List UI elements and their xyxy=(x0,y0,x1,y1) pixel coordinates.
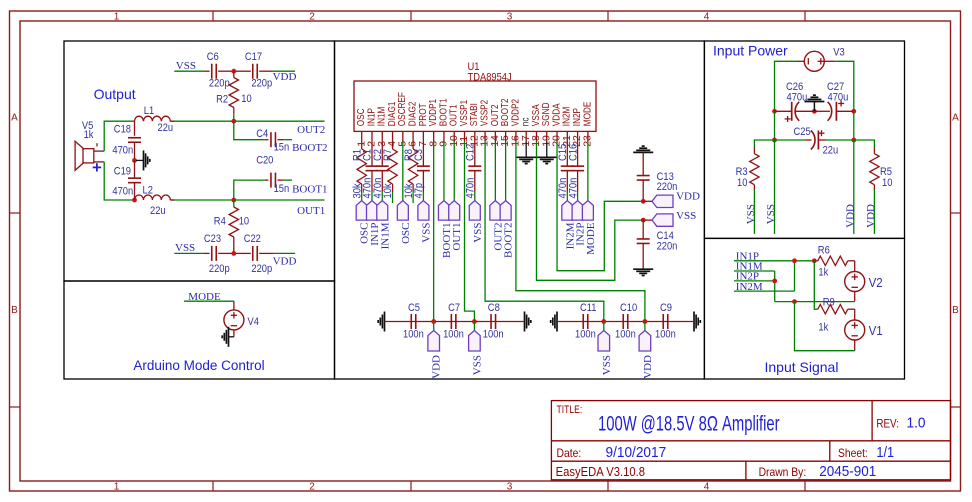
svg-text:OUT1: OUT1 xyxy=(451,223,463,251)
svg-text:V3: V3 xyxy=(833,47,844,59)
svg-text:B: B xyxy=(952,305,959,316)
svg-text:C20: C20 xyxy=(256,155,273,167)
svg-text:470n: 470n xyxy=(112,186,133,198)
svg-text:C22: C22 xyxy=(244,233,261,245)
svg-text:100n: 100n xyxy=(575,329,596,341)
svg-text:1/1: 1/1 xyxy=(876,444,894,461)
svg-text:C17: C17 xyxy=(245,51,262,63)
svg-text:VSS: VSS xyxy=(745,204,757,224)
svg-text:9/10/2017: 9/10/2017 xyxy=(606,444,667,461)
svg-text:V1: V1 xyxy=(869,324,883,338)
svg-text:4: 4 xyxy=(704,482,710,493)
svg-text:C4: C4 xyxy=(256,128,268,140)
svg-text:VDD: VDD xyxy=(273,71,297,83)
svg-text:10: 10 xyxy=(241,93,251,105)
svg-text:C8: C8 xyxy=(488,302,500,314)
svg-text:22u: 22u xyxy=(150,205,166,217)
svg-text:470n: 470n xyxy=(567,178,579,199)
svg-text:OSC: OSC xyxy=(400,223,412,244)
svg-text:EasyEDA V3.10.8: EasyEDA V3.10.8 xyxy=(556,465,645,479)
svg-text:V4: V4 xyxy=(248,316,259,328)
svg-text:15n: 15n xyxy=(274,142,290,154)
svg-text:220p: 220p xyxy=(209,77,230,89)
svg-text:47p: 47p xyxy=(413,183,425,199)
svg-text:1.0: 1.0 xyxy=(907,414,926,431)
svg-text:VDD: VDD xyxy=(676,191,700,203)
svg-text:C11: C11 xyxy=(580,302,597,314)
svg-text:Output: Output xyxy=(94,86,136,102)
svg-text:10: 10 xyxy=(239,216,249,228)
svg-text:3: 3 xyxy=(507,482,513,493)
svg-text:2045-901: 2045-901 xyxy=(819,463,876,480)
svg-text:C12: C12 xyxy=(464,144,476,161)
svg-text:C5: C5 xyxy=(408,302,420,314)
svg-text:C25: C25 xyxy=(794,126,811,138)
svg-text:Arduino Mode Control: Arduino Mode Control xyxy=(133,358,264,373)
svg-text:15n: 15n xyxy=(274,183,290,195)
svg-text:MODE: MODE xyxy=(585,222,597,255)
svg-text:VSS: VSS xyxy=(471,355,483,375)
svg-text:R6: R6 xyxy=(818,245,830,257)
svg-text:L2: L2 xyxy=(143,185,153,197)
svg-text:IN1M: IN1M xyxy=(379,222,391,249)
svg-text:470u: 470u xyxy=(787,92,808,104)
svg-text:10: 10 xyxy=(882,177,892,189)
svg-text:C3: C3 xyxy=(413,149,425,161)
svg-text:C23: C23 xyxy=(204,233,221,245)
svg-text:220p: 220p xyxy=(251,77,272,89)
svg-text:VDD: VDD xyxy=(273,256,297,268)
svg-text:L1: L1 xyxy=(144,105,154,117)
svg-text:TITLE:: TITLE: xyxy=(557,404,583,416)
svg-text:Sheet:: Sheet: xyxy=(838,446,868,460)
svg-text:Input Power: Input Power xyxy=(713,43,788,59)
svg-text:100n: 100n xyxy=(483,329,504,341)
svg-text:BOOT2: BOOT2 xyxy=(503,223,515,258)
svg-text:C7: C7 xyxy=(448,302,460,314)
svg-text:1: 1 xyxy=(114,12,120,23)
svg-text:1k: 1k xyxy=(818,267,828,279)
svg-text:C9: C9 xyxy=(660,302,672,314)
svg-text:VSS: VSS xyxy=(176,60,196,72)
svg-text:100W @18.5V 8Ω Amplifier: 100W @18.5V 8Ω Amplifier xyxy=(598,413,780,436)
svg-text:C6: C6 xyxy=(207,51,219,63)
svg-text:VSS: VSS xyxy=(472,223,484,243)
svg-text:Date:: Date: xyxy=(557,446,582,460)
svg-text:BOOT2: BOOT2 xyxy=(292,142,327,154)
svg-text:100n: 100n xyxy=(615,329,636,341)
svg-text:220n: 220n xyxy=(657,240,678,252)
svg-text:22u: 22u xyxy=(823,145,839,157)
svg-text:1: 1 xyxy=(114,482,120,493)
svg-text:4: 4 xyxy=(704,12,710,23)
svg-text:Input Signal: Input Signal xyxy=(765,359,839,375)
svg-text:B: B xyxy=(11,305,18,316)
svg-text:C16: C16 xyxy=(567,144,579,161)
svg-text:22u: 22u xyxy=(158,122,174,134)
svg-text:R2: R2 xyxy=(216,94,228,106)
svg-text:1k: 1k xyxy=(84,129,94,141)
svg-text:R7: R7 xyxy=(382,149,394,161)
svg-text:220n: 220n xyxy=(657,181,678,193)
svg-text:100n: 100n xyxy=(403,329,424,341)
svg-text:REV:: REV: xyxy=(876,416,899,430)
svg-text:470u: 470u xyxy=(828,92,849,104)
svg-text:OUT1: OUT1 xyxy=(297,205,325,217)
svg-text:VSS: VSS xyxy=(601,355,613,375)
svg-text:R4: R4 xyxy=(214,216,226,228)
svg-text:10k: 10k xyxy=(382,183,394,199)
svg-text:220p: 220p xyxy=(251,263,272,275)
svg-text:MODE: MODE xyxy=(581,102,593,127)
svg-text:470n: 470n xyxy=(112,145,133,157)
svg-text:2: 2 xyxy=(309,12,315,23)
svg-text:VSS: VSS xyxy=(676,210,696,222)
svg-text:A: A xyxy=(11,113,18,124)
svg-text:100n: 100n xyxy=(443,329,464,341)
svg-text:2: 2 xyxy=(309,482,315,493)
svg-text:VSS: VSS xyxy=(175,242,195,254)
svg-text:1k: 1k xyxy=(818,322,828,334)
svg-text:V2: V2 xyxy=(869,276,883,290)
svg-text:VSS: VSS xyxy=(765,204,777,224)
svg-text:Drawn By:: Drawn By: xyxy=(759,465,807,479)
svg-text:C10: C10 xyxy=(620,302,637,314)
svg-text:OUT2: OUT2 xyxy=(297,124,325,136)
svg-text:VDD: VDD xyxy=(431,355,443,379)
svg-text:3: 3 xyxy=(507,12,513,23)
svg-text:C19: C19 xyxy=(114,165,131,177)
svg-text:A: A xyxy=(952,113,959,124)
svg-text:10: 10 xyxy=(737,177,747,189)
svg-text:VDD: VDD xyxy=(844,204,856,228)
svg-text:470n: 470n xyxy=(464,178,476,199)
svg-text:220p: 220p xyxy=(209,263,230,275)
svg-text:VDD: VDD xyxy=(865,204,877,228)
svg-text:BOOT1: BOOT1 xyxy=(292,184,327,196)
svg-text:VDD: VDD xyxy=(642,355,654,379)
svg-text:C18: C18 xyxy=(114,124,131,136)
svg-text:100n: 100n xyxy=(655,329,676,341)
svg-text:VSS: VSS xyxy=(420,223,432,243)
